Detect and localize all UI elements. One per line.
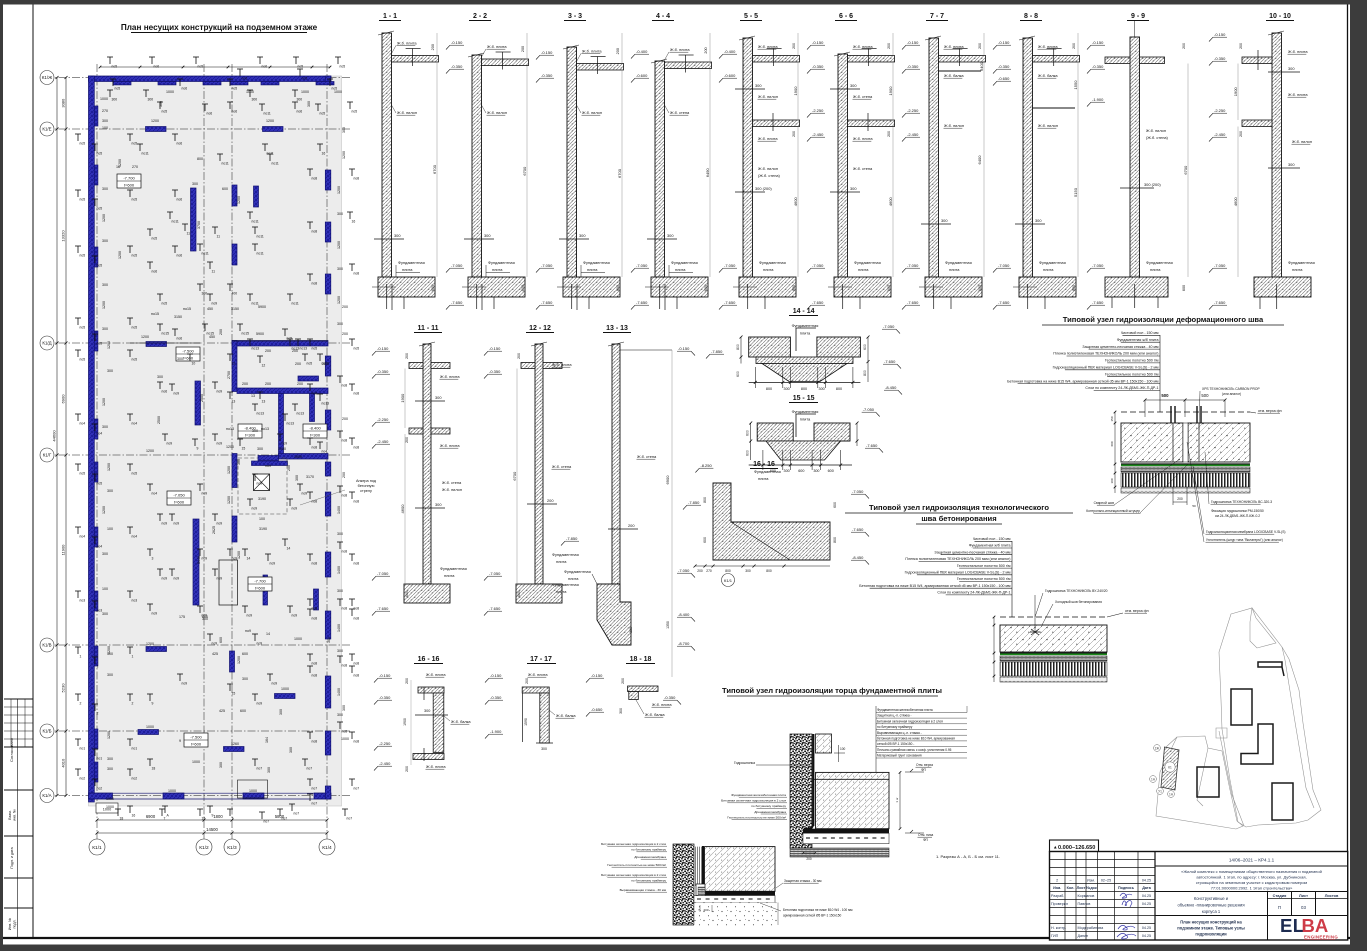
- svg-text:1200: 1200: [107, 646, 111, 654]
- svg-text:-0.350: -0.350: [907, 64, 919, 69]
- svg-text:Отм. низа: Отм. низа: [918, 833, 933, 837]
- svg-text:по9: по9: [217, 390, 223, 394]
- svg-text:17 - 17: 17 - 17: [530, 656, 552, 663]
- svg-text:-7.050: -7.050: [451, 263, 463, 268]
- svg-text:200: 200: [287, 465, 291, 471]
- svg-text:600: 600: [1110, 441, 1114, 446]
- svg-text:1200: 1200: [237, 656, 241, 664]
- svg-text:-0.350: -0.350: [664, 695, 676, 700]
- svg-text:6700: 6700: [617, 168, 622, 178]
- svg-text:13: 13: [262, 400, 266, 404]
- svg-text:Ж.б. плита: Ж.б. плита: [652, 702, 672, 707]
- svg-text:по11: по11: [222, 162, 229, 166]
- svg-text:1200: 1200: [237, 196, 241, 204]
- 15-15 trough: [757, 440, 850, 442]
- svg-text:200: 200: [547, 498, 554, 503]
- svg-text:Фиксация гидрошпонки РМ-150/50: Фиксация гидрошпонки РМ-150/50: [1211, 509, 1264, 513]
- svg-text:100: 100: [102, 587, 108, 591]
- svg-text:3 - 3: 3 - 3: [568, 13, 582, 20]
- svg-text:по11: по11: [292, 302, 299, 306]
- svg-text:по4: по4: [80, 422, 86, 426]
- svg-text:инв. №: инв. №: [13, 809, 17, 821]
- svg-text:Защитная цементно-песчаная стя: Защитная цементно-песчаная стяжка - 40 м…: [1082, 345, 1159, 349]
- svg-text:по9: по9: [257, 702, 263, 706]
- svg-text:по15: по15: [242, 332, 250, 336]
- svg-text:1000: 1000: [168, 789, 176, 793]
- svg-text:Кол.: Кол.: [1067, 886, 1075, 890]
- svg-text:по9: по9: [247, 614, 253, 618]
- svg-text:10 - 10: 10 - 10: [1269, 13, 1291, 20]
- svg-text:Ж.б. плита: Ж.б. плита: [853, 44, 873, 49]
- svg-text:-7.650: -7.650: [1092, 300, 1104, 305]
- svg-text:Фундаментная: Фундаментная: [792, 323, 819, 328]
- svg-text:600: 600: [863, 344, 867, 350]
- svg-text:-0.600: -0.600: [636, 73, 648, 78]
- svg-text:Типовой узел гидроизоляции деф: Типовой узел гидроизоляции деформационно…: [1063, 315, 1264, 324]
- svg-text:200: 200: [405, 437, 409, 443]
- svg-text:-0.350: -0.350: [541, 73, 553, 78]
- svg-text:3: 3: [152, 557, 154, 561]
- svg-text:Ж.б. пилон: Ж.б. пилон: [758, 166, 778, 171]
- svg-text:План несущих конструкций на по: План несущих конструкций на подземном эт…: [121, 23, 318, 32]
- svg-text:Битумная оклеечная гидроизоляц: Битумная оклеечная гидроизоляция в 2 сло…: [601, 873, 666, 877]
- svg-text:600: 600: [833, 502, 837, 508]
- svg-text:-7.700: -7.700: [123, 176, 135, 181]
- svg-text:по8: по8: [312, 177, 318, 181]
- svg-text:300: 300: [337, 649, 343, 653]
- svg-text:стрелу: стрелу: [360, 489, 372, 493]
- svg-text:по5: по5: [152, 237, 158, 241]
- svg-text:300: 300: [107, 489, 113, 493]
- section 6-6 details: [848, 56, 895, 63]
- svg-text:5900: 5900: [256, 332, 264, 336]
- svg-text:по9: по9: [257, 482, 263, 486]
- svg-text:по8: по8: [312, 230, 318, 234]
- svg-text:Ж.б. пилон: Ж.б. пилон: [1292, 139, 1312, 144]
- svg-text:Фундаментная железобетонная пл: Фундаментная железобетонная плита: [877, 708, 933, 712]
- svg-text:600: 600: [736, 371, 740, 377]
- svg-text:по5: по5: [132, 142, 138, 146]
- svg-text:Фундаментная: Фундаментная: [564, 569, 591, 574]
- svg-text:Слои по комплекту 24-ЛК-ДБМ1-Ж: Слои по комплекту 24-ЛК-ДБМ1-ЖК-П-ДР-1: [1085, 386, 1158, 390]
- svg-text:по9: по9: [272, 682, 278, 686]
- svg-text:5230: 5230: [61, 683, 66, 693]
- svg-text:-0.150: -0.150: [1092, 40, 1104, 45]
- svg-text:-0.350: -0.350: [998, 64, 1010, 69]
- svg-text:300: 300: [102, 187, 108, 191]
- svg-text:по9: по9: [270, 562, 276, 566]
- svg-text:Павлов: Павлов: [1078, 902, 1091, 906]
- svg-text:1200: 1200: [337, 186, 341, 194]
- svg-text:12: 12: [262, 364, 266, 368]
- svg-text:t=300: t=300: [245, 433, 256, 438]
- title block frame: [1050, 852, 1348, 941]
- svg-text:2500: 2500: [157, 416, 161, 424]
- svg-text:по3: по3: [97, 609, 103, 613]
- svg-text:13: 13: [251, 394, 255, 398]
- svg-text:-7.650: -7.650: [866, 443, 878, 448]
- svg-text:Типовой узел гидроизоляция тех: Типовой узел гидроизоляция технологическ…: [869, 503, 1049, 512]
- svg-text:по11: по11: [172, 220, 179, 224]
- svg-text:бетонная подготовка не ниже В: бетонная подготовка не ниже В10 W4, арми…: [877, 737, 955, 741]
- svg-text:по9: по9: [217, 577, 223, 581]
- svg-text:-0.150: -0.150: [1214, 32, 1226, 37]
- svg-text:Геотекстиль плотностью не ниже: Геотекстиль плотностью не ниже 500г/м²: [607, 863, 666, 867]
- svg-text:600: 600: [219, 637, 223, 643]
- plan left dimension chain: [65, 78, 67, 796]
- svg-text:1200: 1200: [107, 463, 111, 471]
- bottom wall thin lines: [89, 792, 332, 794]
- svg-text:1200: 1200: [337, 241, 341, 249]
- svg-text:1. Разрезы А - А, Б - Б см. ли: 1. Разрезы А - А, Б - Б см. лист 11.: [936, 854, 1000, 859]
- svg-text:по11: по11: [142, 152, 149, 156]
- lift shaft: [254, 474, 270, 491]
- interior wall segments near lift: [232, 454, 237, 488]
- svg-text:Корманов: Корманов: [1078, 894, 1095, 898]
- svg-text:15: 15: [232, 692, 236, 696]
- svg-text:1000: 1000: [334, 90, 342, 94]
- svg-text:Ж.б. пилон: Ж.б. пилон: [758, 94, 778, 99]
- svg-text:-8.700: -8.700: [678, 641, 690, 646]
- svg-text:по9: по9: [252, 507, 258, 511]
- svg-text:по5: по5: [132, 198, 138, 202]
- svg-text:5150: 5150: [1073, 187, 1078, 197]
- svg-text:4600: 4600: [888, 197, 893, 207]
- svg-text:Взам.: Взам.: [8, 810, 12, 820]
- svg-text:по6: по6: [242, 77, 248, 81]
- svg-text:1200: 1200: [102, 214, 106, 222]
- svg-text:600: 600: [703, 537, 707, 543]
- svg-text:Фундаментная: Фундаментная: [1146, 260, 1173, 265]
- svg-text:300: 300: [337, 532, 343, 536]
- svg-text:по9: по9: [182, 682, 188, 686]
- svg-text:200: 200: [297, 382, 303, 386]
- svg-text:1200: 1200: [107, 341, 111, 349]
- svg-text:9 - 9: 9 - 9: [1131, 13, 1145, 20]
- svg-text:1200: 1200: [342, 151, 346, 159]
- svg-text:по7: по7: [307, 767, 313, 771]
- svg-text:-0.150: -0.150: [451, 40, 463, 45]
- svg-text:t=300: t=300: [310, 433, 321, 438]
- svg-text:425: 425: [212, 652, 218, 656]
- svg-text:по9: по9: [265, 464, 271, 468]
- svg-text:200: 200: [521, 46, 525, 52]
- svg-text:по5: по5: [80, 198, 86, 202]
- svg-text:800: 800: [836, 387, 842, 391]
- svg-text:500: 500: [1201, 393, 1209, 398]
- svg-text:по4: по4: [97, 432, 103, 436]
- svg-text:16: 16: [116, 165, 120, 169]
- svg-text:200: 200: [342, 417, 348, 421]
- svg-text:300: 300: [267, 767, 271, 773]
- svg-text:300: 300: [667, 233, 674, 238]
- svg-text:Защитная стяжка - 30 мм: Защитная стяжка - 30 мм: [784, 879, 822, 883]
- svg-text:по битумному праймеру: по битумному праймеру: [631, 848, 666, 852]
- svg-text:1200: 1200: [151, 119, 159, 123]
- svg-text:300: 300: [307, 101, 311, 107]
- svg-text:1800: 1800: [213, 814, 223, 819]
- svg-text:12 - 12: 12 - 12: [529, 325, 551, 332]
- svg-text:-7.050: -7.050: [1214, 263, 1226, 268]
- svg-text:-7.650: -7.650: [636, 300, 648, 305]
- svg-text:-0.350: -0.350: [490, 695, 502, 700]
- svg-text:-0.150: -0.150: [998, 40, 1010, 45]
- svg-text:Ж.б. плита: Ж.б. плита: [1038, 44, 1058, 49]
- site plan outline: [1156, 608, 1321, 829]
- svg-text:корпуса 1: корпуса 1: [1202, 909, 1221, 914]
- svg-text:300: 300: [850, 83, 857, 88]
- svg-text:-7.650: -7.650: [1214, 300, 1226, 305]
- svg-text:1200: 1200: [118, 251, 122, 259]
- svg-text:1400: 1400: [337, 688, 341, 696]
- svg-text:1900: 1900: [888, 86, 893, 96]
- svg-text:5900: 5900: [258, 305, 266, 309]
- svg-text:200: 200: [405, 353, 409, 359]
- svg-text:300: 300: [941, 218, 948, 223]
- svg-text:плита: плита: [587, 267, 598, 272]
- svg-text:1400: 1400: [337, 624, 341, 632]
- svg-text:14 - 14: 14 - 14: [793, 308, 815, 315]
- detail1 drawing: [1121, 411, 1250, 413]
- svg-text:по6: по6: [152, 270, 158, 274]
- svg-text:14: 14: [266, 632, 270, 636]
- svg-text:Геотекстильное полотно 500 г/м: Геотекстильное полотно 500 г/м: [1105, 372, 1159, 376]
- svg-text:по6: по6: [177, 142, 183, 146]
- svg-text:03: 03: [1301, 905, 1306, 910]
- svg-text:Н. контр.: Н. контр.: [1051, 926, 1066, 930]
- svg-text:по5: по5: [112, 65, 118, 69]
- svg-text:02–25: 02–25: [1101, 878, 1111, 882]
- svg-text:200: 200: [322, 362, 328, 366]
- svg-text:ФП: ФП: [921, 768, 927, 772]
- svg-text:300: 300: [102, 283, 108, 287]
- svg-text:по9: по9: [174, 522, 180, 526]
- svg-text:по5: по5: [97, 152, 103, 156]
- svg-text:по9: по9: [245, 629, 251, 633]
- svg-text:Ж.б. стена: Ж.б. стена: [670, 110, 690, 115]
- svg-text:11: 11: [187, 232, 191, 236]
- svg-text:Ж.б. плита: Ж.б. плита: [440, 443, 460, 448]
- svg-text:(Ж.б. стена): (Ж.б. стена): [758, 173, 781, 178]
- section 7-7 details: [939, 56, 986, 63]
- svg-text:по1: по1: [97, 757, 103, 761]
- svg-text:по11: по11: [202, 252, 209, 256]
- svg-text:6700: 6700: [432, 164, 437, 174]
- svg-text:-1.900: -1.900: [490, 729, 502, 734]
- svg-text:Фундаментная: Фундаментная: [440, 566, 467, 571]
- svg-text:по6: по6: [154, 65, 160, 69]
- svg-text:4600: 4600: [1233, 197, 1238, 207]
- svg-text:по5: по5: [162, 302, 168, 306]
- svg-text:-0.350: -0.350: [377, 369, 389, 374]
- interior pilasters horizontal: [146, 127, 167, 132]
- svg-text:9: 9: [152, 702, 154, 706]
- svg-text:Ж.б. балка: Ж.б. балка: [1038, 73, 1058, 78]
- svg-text:800: 800: [766, 387, 772, 391]
- svg-text:-7.050: -7.050: [678, 568, 690, 573]
- svg-text:300: 300: [289, 747, 293, 753]
- svg-text:600: 600: [431, 285, 435, 291]
- svg-text:200: 200: [342, 472, 346, 478]
- svg-text:200: 200: [704, 47, 708, 53]
- bottom left detail: [673, 844, 694, 925]
- svg-text:1000: 1000: [249, 789, 257, 793]
- svg-text:100: 100: [840, 747, 846, 751]
- svg-text:-2.450: -2.450: [379, 761, 391, 766]
- svg-text:1Ж: 1Ж: [1155, 746, 1160, 750]
- svg-text:К1/Д: К1/Д: [42, 341, 51, 346]
- svg-text:300: 300: [102, 612, 108, 616]
- svg-text:Ж.б. плита: Ж.б. плита: [397, 41, 417, 46]
- svg-text:по15: по15: [162, 332, 170, 336]
- svg-text:Стадия: Стадия: [1273, 894, 1287, 898]
- svg-text:300: 300: [327, 637, 331, 643]
- svg-text:300: 300: [784, 469, 790, 473]
- svg-text:Материковый грунт основания: Материковый грунт основания: [877, 754, 922, 758]
- plan annotation marks: [77, 134, 79, 141]
- svg-text:по9: по9: [162, 577, 168, 581]
- svg-text:ГИП: ГИП: [1051, 934, 1059, 938]
- detail2 drawing: [1000, 616, 1107, 618]
- svg-text:1200: 1200: [227, 466, 231, 474]
- svg-text:Ж.б. стена: Ж.б. стена: [853, 94, 873, 99]
- svg-text:16: 16: [322, 152, 326, 156]
- svg-text:подземном этажe. Типовые узлы: подземном этажe. Типовые узлы: [1177, 926, 1245, 931]
- svg-text:по9: по9: [167, 442, 173, 446]
- svg-text:-7.850: -7.850: [688, 500, 700, 505]
- svg-text:-1.900: -1.900: [1092, 97, 1104, 102]
- svg-text:-0.400: -0.400: [636, 49, 648, 54]
- svg-text:270: 270: [132, 165, 138, 169]
- svg-text:К1/3: К1/3: [227, 845, 237, 851]
- svg-text:6900: 6900: [146, 814, 156, 819]
- svg-text:Уплотнитель (шнур типа "Вилате: Уплотнитель (шнур типа "Вилатерм") (или …: [1206, 538, 1283, 542]
- svg-text:Типовой узел гидроизоляции тор: Типовой узел гидроизоляции торца фундаме…: [722, 686, 942, 695]
- svg-text:Выравнивающая стяжка - 30 мм: Выравнивающая стяжка - 30 мм: [620, 888, 666, 892]
- svg-text:плита: плита: [758, 476, 769, 481]
- svg-text:10: 10: [192, 362, 196, 366]
- svg-text:по5: по5: [97, 482, 103, 486]
- svg-text:300: 300: [177, 357, 183, 361]
- svg-text:11: 11: [217, 235, 221, 239]
- svg-text:16 - 16: 16 - 16: [753, 461, 775, 468]
- svg-text:175: 175: [179, 615, 185, 619]
- svg-text:1000: 1000: [278, 447, 286, 451]
- svg-text:плита: плита: [556, 589, 567, 594]
- svg-text:1: 1: [132, 655, 134, 659]
- svg-text:по9: по9: [152, 612, 158, 616]
- svg-text:Сварной шов: Сварной шов: [1094, 501, 1115, 505]
- svg-text:по9: по9: [217, 442, 223, 446]
- svg-text:800: 800: [725, 569, 731, 573]
- svg-text:Битумная оклеечная гидроизоляц: Битумная оклеечная гидроизоляция в 2 сло…: [601, 842, 666, 846]
- svg-text:Проверил: Проверил: [1051, 902, 1068, 906]
- svg-text:300: 300: [424, 709, 430, 713]
- svg-text:по4: по4: [132, 535, 138, 539]
- svg-text:ФП: ФП: [923, 838, 929, 842]
- svg-text:Фундаментная: Фундаментная: [759, 260, 786, 265]
- svg-text:-7.050: -7.050: [377, 571, 389, 576]
- svg-text:по13: по13: [297, 412, 305, 416]
- svg-text:по5: по5: [132, 254, 138, 258]
- svg-text:К1/А: К1/А: [42, 793, 51, 798]
- svg-text:Ж.б. балка: Ж.б. балка: [944, 73, 964, 78]
- svg-text:200: 200: [978, 43, 982, 49]
- svg-text:гидроизоляции: гидроизоляции: [1195, 932, 1227, 937]
- svg-text:по8: по8: [354, 446, 360, 450]
- svg-text:200: 200: [342, 332, 348, 336]
- svg-text:400: 400: [232, 292, 238, 296]
- bottom right wall stub above: [816, 734, 832, 753]
- svg-text:Битумная оклеечная гидроизоляц: Битумная оклеечная гидроизоляция в 2 сло…: [877, 719, 943, 723]
- svg-text:по3: по3: [80, 599, 86, 603]
- svg-text:1 - 1: 1 - 1: [383, 13, 397, 20]
- svg-text:по5: по5: [320, 112, 326, 116]
- svg-text:500: 500: [1161, 393, 1169, 398]
- svg-text:1200: 1200: [146, 449, 154, 453]
- svg-text:300: 300: [102, 239, 108, 243]
- svg-text:ENGINEERING: ENGINEERING: [1304, 935, 1338, 940]
- svg-text:16: 16: [352, 220, 356, 224]
- svg-text:Песчано-гравийная смесь с коэф: Песчано-гравийная смесь с коэф. уплотнен…: [877, 748, 952, 752]
- 15-15 left block: [757, 423, 793, 441]
- svg-text:плита: плита: [1292, 267, 1303, 272]
- interior pilasters vertical: [232, 185, 237, 206]
- svg-text:по8: по8: [312, 500, 318, 504]
- svg-text:300: 300: [102, 425, 108, 429]
- svg-text:300: 300: [102, 119, 108, 123]
- svg-text:по6: по6: [262, 65, 268, 69]
- bottom right detail: [790, 734, 812, 848]
- svg-text:300: 300: [219, 762, 223, 768]
- svg-text:18: 18: [202, 817, 206, 821]
- svg-text:Изм.: Изм.: [1087, 878, 1095, 882]
- svg-text:-7.850: -7.850: [711, 349, 723, 354]
- svg-text:объемно -планировочные решен: объемно -планировочные решения: [1177, 903, 1244, 908]
- svg-text:по9: по9: [174, 392, 180, 396]
- svg-text:по5: по5: [132, 358, 138, 362]
- svg-text:по8: по8: [354, 500, 360, 504]
- svg-text:-2.450: -2.450: [907, 132, 919, 137]
- svg-text:200: 200: [242, 382, 248, 386]
- svg-text:300: 300: [1288, 66, 1295, 71]
- svg-text:-2.450: -2.450: [377, 439, 389, 444]
- svg-text:1000: 1000: [100, 97, 108, 101]
- title block right verticals: [1154, 852, 1156, 941]
- svg-text:-7.650: -7.650: [812, 300, 824, 305]
- svg-text:Гидроизоляционный ПВХ материал: Гидроизоляционный ПВХ материал LOGICBASE…: [905, 571, 1011, 575]
- svg-text:1900: 1900: [400, 393, 405, 403]
- svg-text:1200: 1200: [146, 642, 154, 646]
- svg-text:600: 600: [792, 285, 796, 291]
- svg-text:Фундаментная: Фундаментная: [552, 582, 579, 587]
- svg-text:300: 300: [297, 98, 303, 102]
- svg-text:Геотекстильное полотно 500 г/м: Геотекстильное полотно 500 г/м: [957, 564, 1011, 568]
- svg-text:Изм.: Изм.: [1053, 886, 1061, 890]
- svg-text:2: 2: [80, 702, 82, 706]
- svg-text:Фундаментная: Фундаментная: [792, 409, 819, 414]
- svg-text:14: 14: [287, 547, 291, 551]
- svg-text:3190: 3190: [258, 497, 266, 501]
- svg-text:600: 600: [517, 591, 521, 597]
- svg-text:800: 800: [202, 615, 208, 619]
- svg-text:К1/Е: К1/Е: [42, 127, 51, 132]
- svg-text:по5: по5: [162, 110, 168, 114]
- svg-text:11 - 11: 11 - 11: [417, 325, 438, 332]
- svg-text:1200: 1200: [102, 301, 106, 309]
- perimeter wall bottom segments: [89, 793, 113, 799]
- svg-text:-7.050: -7.050: [541, 263, 553, 268]
